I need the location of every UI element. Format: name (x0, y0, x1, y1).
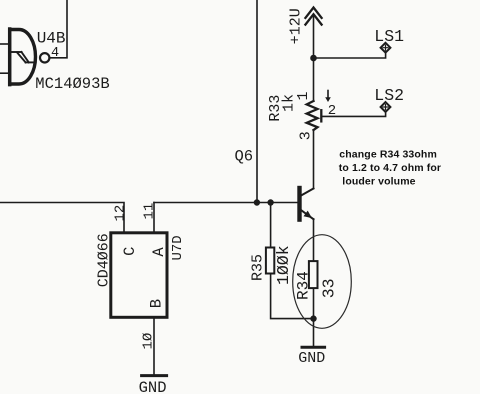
svg-text:CD4Ø66: CD4Ø66 (95, 233, 112, 287)
svg-text:B: B (148, 299, 166, 308)
ground bar left (142, 374, 167, 377)
transistor Q6 (300, 188, 314, 220)
svg-text:to 1.2 to 4.7 ohm for: to 1.2 to 4.7 ohm for (339, 162, 441, 174)
wire pin 11 stub (153, 203, 155, 232)
svg-text:Q6: Q6 (235, 148, 254, 166)
connector LS1 diamond (381, 43, 391, 53)
wire gate output to top (50, 0, 68, 58)
power +12V symbol (305, 8, 321, 25)
junction dot base/R35 (267, 199, 273, 205)
svg-text:3: 3 (298, 131, 315, 140)
resistor R33 zigzag (307, 101, 318, 130)
wire R35 top (270, 203, 272, 247)
resistor R35 box (266, 248, 274, 274)
svg-text:12: 12 (113, 205, 129, 222)
svg-text:louder volume: louder volume (342, 175, 415, 187)
wire +12V down (313, 16, 315, 58)
svg-text:2: 2 (328, 103, 336, 119)
svg-text:1Ø: 1Ø (141, 333, 157, 350)
wire R34 bottom to ground (313, 289, 315, 347)
connector LS2 diamond (381, 102, 391, 112)
svg-text:4: 4 (51, 46, 59, 61)
svg-text:GND: GND (298, 350, 325, 367)
wire pin 10 stub (153, 318, 155, 376)
output bubble pin 4 (40, 53, 49, 62)
wire gate input A (0, 43, 10, 45)
wire base (154, 202, 297, 204)
wire to LS1 (314, 52, 386, 58)
wiper select arrow (327, 91, 329, 99)
arrowhead of wiper select arrow (325, 97, 331, 102)
svg-text:U7D: U7D (170, 235, 186, 260)
svg-text:A: A (150, 247, 168, 257)
svg-text:33: 33 (319, 278, 338, 298)
wire gate input B (0, 72, 10, 74)
svg-text:LS1: LS1 (374, 27, 404, 46)
svg-text:11: 11 (142, 203, 158, 220)
svg-text:+12U: +12U (288, 8, 305, 44)
svg-text:LS2: LS2 (374, 86, 404, 105)
wire wiper to LS2 (322, 112, 385, 117)
wire emitter to R34 (313, 219, 315, 260)
R33 wiper bar pin 2 (320, 110, 322, 121)
schmitt hysteresis symbol (10, 52, 35, 62)
ground bar right (302, 346, 325, 349)
wire R35 bottom (271, 275, 314, 319)
wire left to pin 12 (0, 203, 124, 232)
nand gate U4B body (10, 29, 36, 85)
svg-text:MC14Ø93B: MC14Ø93B (35, 75, 109, 93)
svg-text:1: 1 (295, 91, 312, 100)
junction dot base/top wire (254, 199, 260, 205)
svg-text:U4B: U4B (37, 30, 66, 48)
svg-text:R35: R35 (250, 254, 267, 281)
svg-text:R34: R34 (294, 271, 312, 300)
svg-text:1ØØk: 1ØØk (274, 245, 293, 285)
wire R33 top (313, 58, 315, 101)
junction dot +12V/LS1 (310, 55, 317, 62)
highlight ellipse around R34 (293, 235, 352, 329)
svg-text:GND: GND (139, 379, 167, 394)
junction dot R34/R35 (310, 315, 316, 321)
svg-text:change R34 33ohm: change R34 33ohm (339, 148, 437, 160)
IC box U7D CD4066 (111, 233, 167, 317)
svg-text:C: C (121, 246, 139, 255)
wire top to base node (256, 0, 258, 203)
wire R33 bottom to collector (313, 130, 315, 189)
resistor R34 box (309, 261, 318, 288)
